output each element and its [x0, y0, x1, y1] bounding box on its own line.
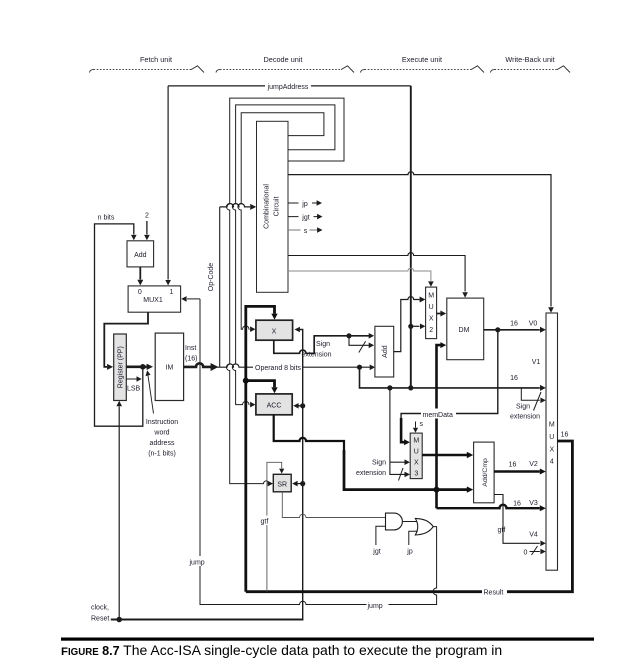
- wire jumpAddress left leg into MUX1 input 1: [167, 86, 169, 280]
- register ACC: [256, 394, 292, 415]
- svg-text:Write-Back unit: Write-Back unit: [505, 55, 554, 64]
- wire MUX3 output to Add/Cmp input 1: [422, 454, 467, 457]
- gate AND: [386, 513, 403, 530]
- combinational circuit U-CC box: [257, 121, 289, 292]
- label Operand 8 bits: [253, 362, 303, 373]
- node V1 to MUX3 branch: [387, 385, 392, 390]
- wire Op-Code feed into CC: [220, 204, 250, 207]
- svg-text:Decode unit: Decode unit: [264, 55, 303, 64]
- wire clock into ACC right: [298, 405, 303, 407]
- svg-text:gtf: gtf: [261, 518, 269, 525]
- svg-text:Op-Code: Op-Code: [208, 263, 215, 292]
- wire Add output to MUX1 input 0: [139, 267, 141, 280]
- label memData: [421, 409, 456, 419]
- svg-text:Inst: Inst: [185, 345, 196, 352]
- wire Operand 8 bits line: [217, 364, 370, 367]
- svg-text:16: 16: [510, 320, 518, 327]
- node PC output junction: [140, 364, 146, 370]
- wire CC control out w2 (wraps to ACC load): [232, 105, 335, 405]
- wire CC control out w1 (wraps to SR load): [226, 98, 344, 484]
- wire V3 line from riser to MUX4: [437, 505, 540, 509]
- svg-text:address: address: [150, 440, 175, 447]
- wire MUX1 output to Register (PP): [104, 312, 148, 367]
- svg-text:jp: jp: [301, 201, 308, 208]
- wire Result branch into ACC top: [246, 381, 275, 388]
- svg-text:M: M: [549, 422, 555, 429]
- svg-text:1: 1: [170, 289, 174, 296]
- svg-text:U: U: [549, 434, 554, 441]
- wire constant 0 into MUX4 with slash: [530, 551, 540, 553]
- svg-text:jp: jp: [406, 549, 413, 556]
- svg-text:X: X: [549, 446, 554, 453]
- svg-text:jgt: jgt: [372, 549, 380, 556]
- svg-text:16: 16: [510, 375, 518, 382]
- svg-text:16: 16: [513, 501, 521, 508]
- node ACC bus to DM riser: [434, 487, 440, 493]
- wire Inst(16) bus from IM with hop over jump wire and big arrow: [184, 363, 211, 367]
- svg-text:n bits: n bits: [98, 215, 115, 222]
- svg-text:Circuit: Circuit: [274, 197, 281, 217]
- wire MUX4 output Result: [246, 441, 573, 592]
- wire n-bits feedback loop (PC to Add): [95, 224, 143, 426]
- node tap to MUX2 input 2: [408, 324, 413, 329]
- wire CC out jp: [288, 202, 317, 204]
- node clock to SR: [300, 481, 305, 486]
- svg-text:FIGURE 8.7 The Acc-ISA single-: FIGURE 8.7 The Acc-ISA single-cycle data…: [61, 642, 502, 658]
- svg-text:jumpAddress: jumpAddress: [267, 84, 309, 91]
- wire SR output to AND gate: [282, 492, 385, 518]
- wire CC out jgt: [288, 216, 318, 218]
- register Register (PP): [114, 334, 127, 401]
- wire X output to exec Add input 1: [274, 336, 369, 354]
- svg-text:U: U: [414, 448, 419, 455]
- wire CC out to MUX4 select: [288, 172, 551, 307]
- wire AND output to OR gate: [402, 521, 417, 523]
- svg-text:Sign: Sign: [316, 341, 330, 348]
- node operand junction to sign-extend path: [357, 365, 362, 370]
- wire jp into OR gate: [409, 531, 418, 545]
- svg-text:extension: extension: [510, 414, 540, 421]
- wire jump into MUX1 select (right side): [187, 298, 200, 300]
- svg-text:X: X: [414, 459, 419, 466]
- adder Add (execute): [375, 326, 394, 377]
- wire LSB output: [126, 378, 136, 380]
- svg-text:V3: V3: [529, 500, 538, 507]
- wire gtf from Add/Cmp to MUX4 V4: [494, 495, 540, 544]
- wire clock riser to Register: [118, 407, 120, 620]
- node jumpAddress joins V1 line: [408, 385, 413, 390]
- svg-text:0: 0: [524, 550, 528, 557]
- wire jumpAddress horizontal: [168, 85, 411, 87]
- svg-text:(16): (16): [185, 356, 197, 363]
- svg-text:IM: IM: [166, 365, 174, 372]
- brace Write-Back unit: [491, 66, 571, 73]
- svg-text:V2: V2: [529, 461, 538, 468]
- wire clock Reset line: [111, 619, 304, 621]
- wire Add/Cmp output to MUX4 V2: [494, 470, 540, 472]
- wire sign-extended branch to exec Add input 2 with slash: [349, 336, 369, 346]
- svg-text:Instruction: Instruction: [146, 419, 178, 426]
- wire sign-extension tap into MUX4 below V1: [521, 388, 540, 400]
- label jump (horizontal leg): [367, 600, 389, 611]
- wire CC control out w3 (wraps to X load): [238, 113, 324, 329]
- register X: [256, 320, 293, 340]
- svg-text:DM: DM: [459, 327, 470, 334]
- slash on MUX3 input 3: [399, 468, 404, 481]
- svg-text:clock,: clock,: [91, 605, 109, 612]
- svg-text:ACC: ACC: [267, 403, 282, 410]
- memory DM: [447, 298, 484, 360]
- wire ACC output bus: [274, 415, 467, 490]
- svg-text:X: X: [429, 316, 434, 323]
- adder Add (fetch): [127, 241, 154, 267]
- node Result branch to ACC: [243, 378, 249, 384]
- svg-text:M: M: [413, 437, 419, 444]
- label jump (vertical leg): [189, 556, 209, 567]
- wire SR input from Result (gtf store): [267, 462, 282, 591]
- label Result: [482, 586, 507, 596]
- svg-text:3: 3: [414, 470, 418, 477]
- svg-text:16: 16: [509, 462, 517, 469]
- svg-text:memData: memData: [423, 412, 453, 419]
- svg-text:V4: V4: [529, 532, 538, 539]
- mux MUX4: [546, 313, 558, 570]
- svg-text:2: 2: [145, 213, 149, 220]
- svg-text:0: 0: [138, 289, 142, 296]
- wire s select into MUX3: [415, 422, 417, 428]
- svg-text:Sign: Sign: [516, 404, 530, 411]
- wire constant 2 into Add: [146, 221, 148, 235]
- svg-text:MUX1: MUX1: [143, 297, 163, 304]
- svg-text:Fetch unit: Fetch unit: [140, 55, 172, 64]
- svg-text:Register (PP): Register (PP): [118, 346, 125, 388]
- svg-text:Add/Cmp: Add/Cmp: [482, 458, 489, 487]
- wire exec Add output to MUX2 input 1: [394, 297, 420, 352]
- svg-text:U: U: [429, 304, 434, 311]
- svg-text:s: s: [304, 228, 308, 235]
- svg-text:jump: jump: [189, 560, 205, 567]
- svg-text:Result: Result: [484, 589, 504, 596]
- svg-text:V0: V0: [529, 320, 538, 327]
- wire tap to MUX2 input 2: [411, 325, 420, 327]
- wire MUX2 output to DM address: [437, 313, 441, 315]
- wire Op-Code vertical from Inst bus: [219, 207, 221, 367]
- svg-text:extension: extension: [356, 470, 386, 477]
- node memData tap on DM output: [495, 327, 500, 332]
- label jumpAddress: [265, 80, 311, 91]
- wire OR output jump down and left to MUX1: [200, 299, 437, 605]
- wire Result thick net vertical + branches to X and ACC: [246, 306, 275, 591]
- node clock junction to Register: [116, 617, 122, 623]
- annotation arrow instruction word address: [148, 376, 154, 414]
- svg-text:Add: Add: [382, 345, 389, 358]
- svg-text:s: s: [420, 421, 424, 428]
- svg-text:LSB: LSB: [127, 386, 141, 393]
- brace Execute unit: [361, 66, 485, 73]
- svg-text:4: 4: [550, 458, 554, 465]
- svg-text:word: word: [153, 430, 169, 437]
- wire CC out s: [288, 229, 318, 231]
- svg-text:gtf: gtf: [498, 527, 506, 534]
- wire operand sign-extend drop to V1 line: [360, 367, 540, 388]
- svg-text:jump: jump: [367, 603, 383, 610]
- label gtf (SR input): [260, 516, 274, 526]
- wire DM write-data riser (thick) from ACC bus: [437, 345, 441, 508]
- svg-text:jgt: jgt: [301, 215, 309, 222]
- svg-text:extension: extension: [302, 352, 332, 359]
- svg-text:SR: SR: [277, 481, 287, 488]
- svg-text:16: 16: [561, 432, 569, 439]
- caption rule: [61, 638, 594, 641]
- wire CC out to DM control: [288, 253, 465, 292]
- svg-text:Reset: Reset: [91, 616, 109, 623]
- node Add input junction: [346, 333, 351, 338]
- wire DM output to MUX4 V0: [484, 329, 540, 331]
- mux MUX3: [410, 433, 422, 479]
- svg-text:Add: Add: [134, 252, 147, 259]
- svg-text:2: 2: [429, 327, 433, 334]
- svg-text:X: X: [272, 328, 277, 335]
- gate OR: [415, 518, 433, 535]
- wire branch down to MUX3 inputs 2 and 3: [390, 388, 405, 475]
- svg-text:Combinational: Combinational: [264, 184, 271, 229]
- comparator Add/Cmp: [474, 442, 495, 503]
- node clock to ACC: [300, 403, 305, 408]
- svg-text:M: M: [428, 293, 434, 300]
- memory IM: [155, 333, 183, 400]
- svg-text:(n-1 bits): (n-1 bits): [148, 451, 176, 458]
- svg-text:Sign: Sign: [372, 460, 386, 467]
- svg-text:Execute unit: Execute unit: [402, 55, 442, 64]
- wire Register output bus to IM: [126, 365, 146, 368]
- svg-text:V1: V1: [532, 359, 541, 366]
- wire jgt into AND gate: [376, 526, 386, 545]
- wire CC out to MUX2 select: [288, 268, 431, 281]
- svg-text:Operand 8 bits: Operand 8 bits: [255, 365, 301, 372]
- wire memData to MUX3 input 1: [401, 330, 498, 442]
- mux MUX1: [128, 286, 181, 312]
- mux MUX2: [426, 287, 437, 339]
- brace Decode unit: [216, 66, 354, 73]
- brace Fetch unit: [90, 66, 205, 73]
- wire clock into SR right: [297, 483, 303, 485]
- wire jumpAddress right leg (vertical x=410.8 with hops): [410, 86, 412, 388]
- register SR: [273, 474, 291, 492]
- wire clock vertical feeding X ACC SR: [300, 330, 303, 620]
